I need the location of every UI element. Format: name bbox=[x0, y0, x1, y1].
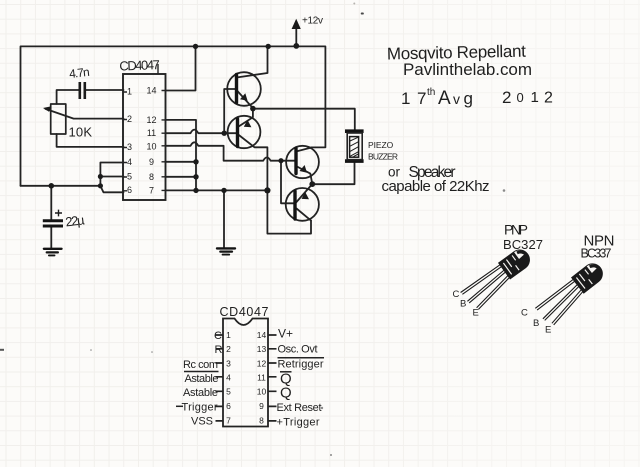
svg-text:R: R bbox=[215, 344, 223, 356]
svg-text:capable of 22Khz: capable of 22Khz bbox=[382, 178, 490, 195]
svg-text:4.7n: 4.7n bbox=[68, 65, 90, 81]
svg-text:PIEZO: PIEZO bbox=[368, 140, 394, 150]
svg-text:BUZZER: BUZZER bbox=[368, 151, 398, 161]
svg-text:Rc com: Rc com bbox=[183, 359, 218, 371]
svg-text:Astable: Astable bbox=[185, 373, 219, 385]
svg-text:7: 7 bbox=[149, 186, 154, 196]
svg-text:A: A bbox=[438, 88, 451, 109]
svg-text:7: 7 bbox=[226, 416, 231, 426]
svg-text:V+: V+ bbox=[278, 327, 293, 341]
svg-text:14: 14 bbox=[146, 86, 156, 96]
svg-text:C: C bbox=[521, 308, 528, 319]
svg-text:9: 9 bbox=[149, 157, 154, 167]
svg-text:8: 8 bbox=[149, 172, 154, 182]
svg-text:0: 0 bbox=[517, 90, 524, 105]
svg-text:CD4047: CD4047 bbox=[220, 305, 269, 319]
svg-text:22µ: 22µ bbox=[65, 212, 86, 229]
svg-text:3: 3 bbox=[226, 359, 231, 369]
svg-text:2: 2 bbox=[502, 88, 511, 107]
svg-text:g: g bbox=[464, 89, 473, 108]
svg-text:Osc. Ovt: Osc. Ovt bbox=[278, 344, 318, 356]
svg-text:8: 8 bbox=[259, 416, 264, 426]
svg-text:1: 1 bbox=[401, 89, 410, 108]
svg-text:CD4047: CD4047 bbox=[119, 57, 160, 73]
svg-text:5: 5 bbox=[127, 172, 132, 182]
svg-text:+Trigger: +Trigger bbox=[277, 417, 320, 429]
svg-text:2: 2 bbox=[226, 344, 231, 354]
svg-text:Pavlinthelab.com: Pavlinthelab.com bbox=[403, 60, 532, 79]
svg-text:12: 12 bbox=[257, 359, 267, 369]
svg-text:B: B bbox=[460, 299, 466, 310]
svg-text:1: 1 bbox=[531, 89, 539, 106]
svg-text:B: B bbox=[533, 318, 539, 329]
svg-text:BC337: BC337 bbox=[581, 247, 612, 261]
svg-text:PNP: PNP bbox=[504, 222, 528, 238]
svg-text:11: 11 bbox=[147, 128, 156, 138]
svg-text:11: 11 bbox=[257, 373, 266, 383]
svg-text:4: 4 bbox=[127, 157, 132, 167]
svg-text:13: 13 bbox=[257, 344, 267, 354]
svg-text:10: 10 bbox=[146, 142, 156, 152]
svg-text:v: v bbox=[453, 91, 460, 107]
svg-text:10: 10 bbox=[257, 387, 267, 397]
svg-text:th: th bbox=[427, 87, 435, 98]
svg-text:Astable: Astable bbox=[183, 387, 218, 399]
svg-text:6: 6 bbox=[226, 401, 231, 411]
svg-text:5: 5 bbox=[226, 387, 231, 397]
svg-text:C: C bbox=[453, 289, 460, 300]
svg-text:BC327: BC327 bbox=[503, 237, 543, 252]
svg-text:+12v: +12v bbox=[302, 16, 323, 27]
svg-text:E: E bbox=[473, 308, 479, 319]
svg-text:9: 9 bbox=[259, 401, 264, 411]
svg-text:Q: Q bbox=[280, 385, 292, 402]
svg-text:2: 2 bbox=[544, 90, 553, 107]
svg-text:1: 1 bbox=[226, 330, 231, 340]
svg-text:14: 14 bbox=[257, 330, 267, 340]
svg-text:Trigger: Trigger bbox=[182, 402, 218, 414]
svg-text:7: 7 bbox=[417, 89, 426, 108]
svg-text:E: E bbox=[545, 325, 551, 336]
svg-text:4: 4 bbox=[226, 373, 231, 383]
svg-text:3: 3 bbox=[127, 142, 132, 152]
svg-text:2: 2 bbox=[127, 114, 132, 124]
svg-text:VSS: VSS bbox=[191, 416, 213, 428]
svg-text:Ext Reset: Ext Reset bbox=[277, 402, 322, 414]
svg-text:Retrigger: Retrigger bbox=[278, 359, 324, 371]
svg-text:6: 6 bbox=[127, 185, 132, 195]
svg-text:C: C bbox=[214, 330, 222, 342]
svg-text:12: 12 bbox=[146, 115, 156, 125]
svg-text:10K: 10K bbox=[69, 124, 93, 139]
svg-text:1: 1 bbox=[127, 87, 132, 97]
